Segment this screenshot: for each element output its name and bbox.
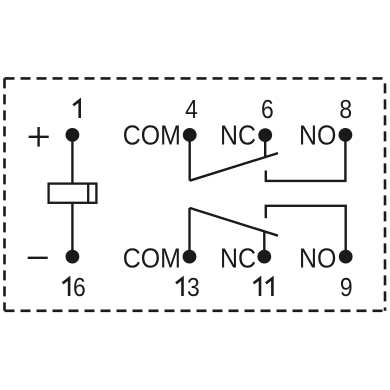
- movable contact arm (bottom): [190, 208, 279, 236]
- relay coil: [49, 184, 97, 203]
- pin 6 terminal dot (NC top): [258, 128, 272, 142]
- svg-text:NO: NO: [299, 242, 336, 274]
- svg-text:4: 4: [185, 96, 198, 125]
- wire pin1 to coil: [71, 135, 73, 184]
- svg-text:COM: COM: [123, 242, 181, 274]
- svg-text:NC: NC: [220, 242, 256, 274]
- wire NO top fixed contact: [266, 135, 346, 181]
- svg-text:NO: NO: [299, 119, 336, 151]
- plus polarity symbol: [29, 127, 49, 147]
- dashed enclosure border: [5, 78, 386, 310]
- pin 16 terminal dot: [66, 250, 80, 264]
- wire COM bottom stub: [188, 208, 190, 257]
- pin 13 terminal dot (COM bottom): [183, 250, 197, 264]
- svg-text:NC: NC: [220, 119, 256, 151]
- wire NO bottom fixed contact: [266, 206, 346, 257]
- wire COM top stub: [188, 135, 190, 181]
- svg-text:8: 8: [339, 96, 352, 125]
- pin 1 number label: [73, 100, 80, 118]
- pin 11 number label: [254, 278, 261, 296]
- svg-text:COM: COM: [123, 119, 181, 151]
- pin 13 number label: [176, 278, 183, 296]
- wire NC bottom stub: [263, 232, 265, 257]
- pin 8 terminal dot (NO top): [339, 128, 353, 142]
- pin 9 terminal dot (NO bottom): [339, 250, 353, 264]
- wire NC top stub: [264, 135, 266, 157]
- pin 11 terminal dot (NC bottom): [257, 250, 271, 264]
- minus polarity symbol: [28, 257, 48, 259]
- svg-text:9: 9: [340, 274, 353, 303]
- pin 1 terminal dot: [66, 128, 80, 142]
- movable contact arm (top): [190, 153, 278, 181]
- svg-text:6: 6: [73, 274, 86, 303]
- svg-text:6: 6: [261, 96, 274, 125]
- pin 16 number label: [63, 278, 70, 296]
- wire coil to pin16: [71, 203, 73, 257]
- pin 4 terminal dot (COM top): [183, 128, 197, 142]
- svg-text:3: 3: [187, 274, 200, 303]
